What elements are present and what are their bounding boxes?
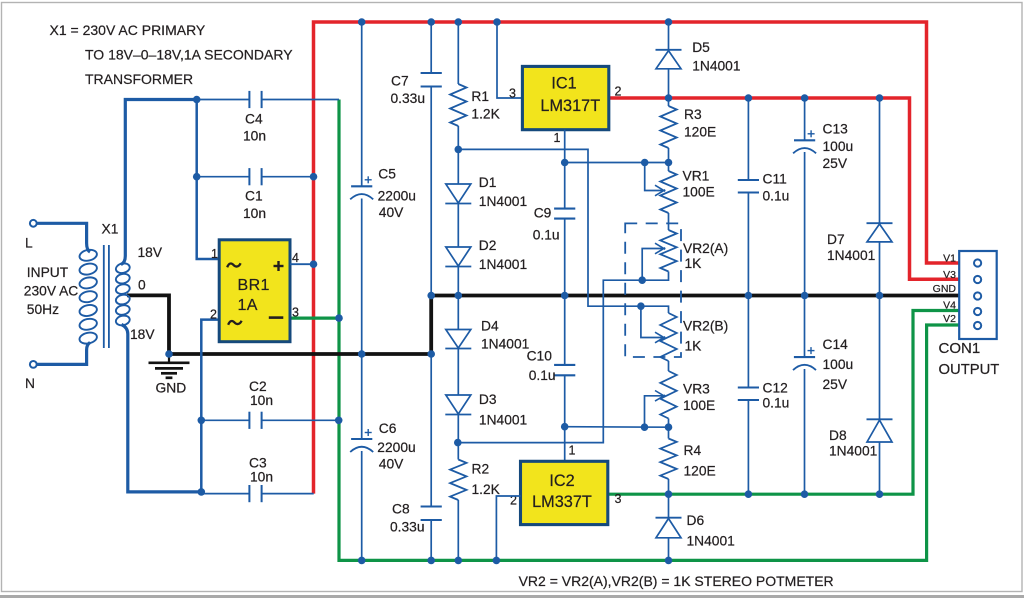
potentiometer VR2(A) — [642, 230, 728, 280]
svg-text:C13: C13 — [823, 122, 849, 137]
node C13 ground rail — [801, 292, 809, 300]
svg-text:C8: C8 — [392, 502, 410, 517]
svg-text:LM337T: LM337T — [532, 493, 592, 511]
svg-text:C6: C6 — [379, 421, 397, 436]
node IC1 pin1 — [561, 159, 569, 167]
svg-text:GND: GND — [156, 381, 187, 396]
svg-text:X1 = 230V AC PRIMARY: X1 = 230V AC PRIMARY — [50, 22, 206, 38]
node BR1 pin4 red rail — [310, 260, 318, 268]
svg-text:V4: V4 — [943, 299, 956, 311]
svg-text:10n: 10n — [243, 206, 266, 221]
diode D8 — [829, 296, 893, 495]
node D5 output rail — [665, 94, 673, 102]
svg-text:IC2: IC2 — [549, 472, 574, 490]
svg-text:2200u: 2200u — [378, 189, 416, 204]
svg-text:2200u: 2200u — [377, 440, 415, 455]
svg-text:D1: D1 — [479, 175, 497, 190]
node AC2 C3 junction — [198, 488, 206, 496]
svg-text:3: 3 — [292, 306, 299, 320]
svg-text:0.1u: 0.1u — [529, 368, 556, 383]
node C1 red rail — [310, 173, 318, 181]
node C7 ground rail corner — [427, 292, 435, 300]
svg-text:D8: D8 — [829, 428, 847, 443]
svg-text:CON1: CON1 — [939, 340, 981, 357]
wire R1 D1 node to VR2B node — [458, 149, 641, 306]
wire secondary top to C4 node — [121, 100, 197, 265]
svg-text:1.2K: 1.2K — [471, 107, 500, 122]
op-amp regulator IC2 LM337T — [521, 461, 608, 524]
node BR1 pin3 green rail — [335, 314, 343, 322]
capacitor C14 — [793, 296, 853, 495]
wire IC2 pin2 to green rail — [496, 496, 520, 560]
svg-text:0: 0 — [138, 278, 146, 293]
svg-text:1A: 1A — [238, 297, 258, 314]
node VR2B wiper junction — [637, 302, 645, 310]
svg-text:C4: C4 — [245, 112, 263, 127]
node R1 D1 junction — [455, 146, 463, 154]
node VR2A wiper junction — [638, 276, 646, 284]
wire L to primary — [37, 223, 90, 252]
svg-text:V3: V3 — [943, 269, 956, 281]
svg-text:120E: 120E — [684, 464, 716, 479]
node D7 ground rail — [876, 292, 884, 300]
node R2 green rail — [455, 557, 463, 565]
svg-text:2: 2 — [615, 85, 622, 99]
capacitor C1 — [243, 168, 266, 221]
svg-text:1N4001: 1N4001 — [479, 413, 527, 428]
svg-text:BR1: BR1 — [238, 277, 270, 294]
capacitor C5 — [350, 22, 416, 354]
svg-text:VR2 = VR2(A),VR2(B) = 1K STERE: VR2 = VR2(A),VR2(B) = 1K STEREO POTMETER — [519, 573, 834, 589]
wire VR1 to VR2A — [668, 213, 670, 230]
svg-text:0.1u: 0.1u — [763, 189, 790, 204]
svg-text:C9: C9 — [534, 206, 552, 221]
svg-text:0.33u: 0.33u — [390, 519, 425, 534]
transformer X1 primary winding — [78, 248, 97, 345]
resistor R4 — [660, 419, 715, 495]
wire red rail to IC1 pin3 — [497, 22, 522, 98]
node AC1 C1 junction — [193, 173, 201, 181]
svg-text:40V: 40V — [379, 205, 404, 220]
node VR3 R4 junction — [665, 423, 673, 431]
wire C4 left — [197, 99, 250, 101]
node C14 green output rail — [801, 490, 809, 498]
resistor R2 — [450, 443, 501, 561]
svg-text:V2: V2 — [943, 313, 956, 325]
wire D3 R2 node to VR2A node — [458, 280, 642, 442]
node C8 green rail — [427, 557, 435, 565]
svg-text:TO 18V–0–18V,1A SECONDARY: TO 18V–0–18V,1A SECONDARY — [85, 47, 293, 63]
svg-text:C11: C11 — [763, 172, 787, 187]
svg-text:2: 2 — [210, 308, 217, 322]
diode D3 — [445, 392, 527, 443]
node C10 VR3 wiper junction — [561, 423, 569, 431]
node GND junction — [165, 350, 173, 358]
node C5 C6 ground rail — [358, 350, 366, 358]
svg-text:1: 1 — [569, 444, 576, 458]
svg-text:1N4001: 1N4001 — [692, 59, 740, 74]
svg-text:N: N — [25, 376, 35, 391]
svg-text:25V: 25V — [823, 156, 848, 171]
wire C3 left — [201, 493, 249, 495]
potentiometer VR2(B) — [641, 306, 728, 361]
wire IC1 pin1 to adjust node — [564, 130, 566, 163]
svg-text:18V: 18V — [130, 327, 155, 342]
svg-text:100u: 100u — [823, 139, 854, 154]
potentiometer VR1 — [645, 163, 715, 214]
wire C4 right to green rail — [262, 99, 339, 101]
node R4 green output rail — [665, 490, 673, 498]
svg-text:VR2(B): VR2(B) — [683, 319, 728, 334]
svg-text:R3: R3 — [684, 107, 702, 122]
diode D1 — [445, 149, 527, 247]
svg-text:D3: D3 — [479, 392, 497, 407]
node C12 green output rail — [745, 490, 753, 498]
node IC1 pin3 red rail — [493, 18, 501, 26]
svg-text:GND: GND — [933, 283, 957, 295]
svg-text:C1: C1 — [245, 189, 263, 204]
wire IC2 pin1 — [564, 427, 566, 462]
svg-text:0.1u: 0.1u — [533, 228, 560, 243]
label INPUT 230V AC 50Hz — [24, 265, 78, 317]
wire green negative rail from C4 to CON1 V2 — [339, 100, 959, 561]
bridge rectifier BR1 — [219, 240, 290, 342]
svg-text:230V AC: 230V AC — [24, 284, 78, 299]
svg-text:OUTPUT: OUTPUT — [939, 362, 1000, 378]
svg-text:1N4001: 1N4001 — [827, 248, 875, 263]
node C6 green rail — [358, 557, 366, 565]
capacitor C3 — [249, 456, 273, 503]
svg-text:IC1: IC1 — [551, 74, 576, 92]
capacitor C2 — [249, 379, 273, 429]
node C11 output rail — [745, 94, 753, 102]
terminal L — [25, 220, 37, 251]
svg-text:INPUT: INPUT — [27, 265, 69, 280]
resistor R3 — [660, 98, 716, 163]
svg-text:1K: 1K — [685, 256, 703, 271]
node AC2 C2 junction — [198, 417, 206, 425]
wire adjust node to VR1 — [565, 162, 669, 164]
svg-text:100E: 100E — [683, 398, 715, 413]
capacitor C9 — [533, 163, 576, 296]
node C13 output rail — [801, 94, 809, 102]
svg-text:18V: 18V — [138, 245, 163, 260]
svg-text:R1: R1 — [471, 89, 489, 104]
node ground rail lower corner — [427, 350, 435, 358]
op-amp regulator IC1 LM317T — [522, 66, 608, 129]
wire green BR1 pin3 to negative rail — [290, 317, 339, 320]
node D5 red rail — [665, 18, 673, 26]
potentiometer VR3 — [645, 371, 716, 427]
svg-text:10n: 10n — [243, 129, 266, 144]
terminal N — [25, 361, 37, 391]
svg-text:1: 1 — [211, 247, 218, 261]
transformer X1 core — [104, 245, 109, 348]
node D8 green output rail — [876, 490, 884, 498]
svg-text:L: L — [25, 236, 33, 251]
node VR1 wiper junction — [641, 159, 649, 167]
capacitor C11 — [738, 98, 790, 296]
node D3 R2 junction — [454, 439, 462, 447]
ganged stereo potentiometer outline VR2 — [625, 223, 681, 357]
diode D2 — [445, 238, 527, 296]
wire C1 right to red rail — [262, 176, 314, 178]
diode D4 — [445, 296, 529, 396]
capacitor C8 — [390, 354, 442, 560]
node C11 ground rail — [745, 292, 753, 300]
wire BR1 pin4 to red rail — [290, 263, 314, 265]
svg-text:1N4001: 1N4001 — [829, 444, 877, 459]
wire N to primary — [37, 343, 90, 365]
wire C2 left — [201, 419, 249, 421]
svg-text:C5: C5 — [378, 166, 396, 181]
node C2 green rail — [335, 417, 343, 425]
svg-text:1: 1 — [554, 131, 561, 145]
label CON1 OUTPUT — [939, 340, 1000, 378]
svg-text:1N4001: 1N4001 — [479, 194, 527, 209]
wire BR1 pin2 vertical to C2 C3 nodes — [201, 320, 219, 492]
wire C2 right to green rail — [262, 419, 339, 421]
capacitor C12 — [738, 296, 790, 495]
svg-text:C7: C7 — [391, 74, 409, 89]
diode D5 — [656, 22, 741, 98]
svg-text:1.2K: 1.2K — [472, 482, 501, 497]
svg-text:V1: V1 — [943, 252, 956, 264]
svg-text:R4: R4 — [684, 443, 702, 458]
svg-text:VR2(A): VR2(A) — [683, 241, 728, 256]
node AC1 top — [193, 96, 201, 104]
wire black ground rail from transformer centre tap to CON1 GND — [127, 295, 959, 354]
svg-text:3: 3 — [509, 87, 516, 101]
connector CON1 — [959, 251, 997, 339]
svg-text:25V: 25V — [823, 377, 848, 392]
wire red positive rail from BR1 + to CON1 V1 — [314, 22, 960, 494]
node R1 red rail — [455, 18, 463, 26]
svg-text:10n: 10n — [250, 393, 273, 408]
wire secondary bottom to C3 node — [122, 325, 202, 492]
svg-text:VR3: VR3 — [683, 382, 710, 397]
diode D6 — [656, 494, 735, 560]
svg-text:R2: R2 — [472, 462, 490, 477]
svg-text:C14: C14 — [823, 337, 849, 352]
resistor R1 — [450, 22, 500, 149]
svg-text:40V: 40V — [379, 457, 404, 472]
wire green IC2 output rail to CON1 V4 — [608, 311, 959, 495]
svg-text:D4: D4 — [481, 319, 499, 334]
svg-text:D2: D2 — [479, 238, 497, 253]
wire AC1 node vertical to BR1 pin1 — [197, 100, 220, 260]
svg-text:10n: 10n — [250, 470, 273, 485]
transformer X1 secondary winding — [115, 262, 131, 326]
capacitor C13 — [793, 98, 853, 296]
svg-text:C10: C10 — [527, 349, 553, 364]
capacitor C10 — [527, 296, 576, 427]
svg-text:D7: D7 — [827, 232, 845, 247]
svg-text:0.33u: 0.33u — [391, 91, 426, 106]
svg-text:100E: 100E — [683, 185, 715, 200]
node VR3 wiper junction — [641, 423, 649, 431]
svg-text:1K: 1K — [685, 339, 703, 354]
ground GND — [149, 354, 190, 396]
svg-text:1N4001: 1N4001 — [479, 257, 527, 272]
node C9 ground rail — [561, 292, 569, 300]
wire red IC1 output rail to CON1 V3 — [609, 98, 959, 279]
svg-text:1N4001: 1N4001 — [687, 534, 735, 549]
wire C1 left — [197, 176, 250, 178]
svg-text:VR1: VR1 — [683, 169, 710, 184]
node C7 red rail — [427, 18, 435, 26]
svg-text:0.1u: 0.1u — [763, 396, 790, 411]
capacitor C4 — [243, 91, 266, 144]
note transformer spec — [50, 22, 294, 87]
capacitor C7 — [391, 22, 442, 296]
svg-text:LM317T: LM317T — [540, 97, 600, 115]
svg-text:C2: C2 — [249, 379, 267, 394]
node C5 red rail — [358, 18, 366, 26]
capacitor C6 — [350, 354, 415, 560]
svg-text:D6: D6 — [687, 513, 705, 528]
node D6 green rail — [665, 557, 673, 565]
svg-text:100u: 100u — [823, 357, 854, 372]
svg-text:4: 4 — [292, 251, 299, 265]
diode D7 — [827, 98, 893, 296]
node IC2 pin2 green rail — [493, 557, 501, 565]
svg-text:120E: 120E — [684, 125, 716, 140]
svg-text:3: 3 — [615, 492, 622, 506]
wire C3 right to red rail end — [262, 493, 314, 495]
svg-text:50Hz: 50Hz — [27, 302, 59, 317]
svg-text:C12: C12 — [763, 380, 788, 395]
svg-text:C3: C3 — [249, 456, 267, 471]
svg-text:D5: D5 — [692, 40, 710, 55]
svg-text:TRANSFORMER: TRANSFORMER — [85, 71, 193, 87]
node D7 output rail — [876, 94, 884, 102]
svg-text:X1: X1 — [102, 222, 119, 237]
node R3 VR1 junction — [665, 159, 673, 167]
svg-text:1N4001: 1N4001 — [481, 337, 529, 352]
wire VR2B to VR3 — [668, 361, 670, 371]
node D2 D4 ground rail — [455, 292, 463, 300]
wire C10 node to VR3 R4 node — [565, 426, 669, 429]
